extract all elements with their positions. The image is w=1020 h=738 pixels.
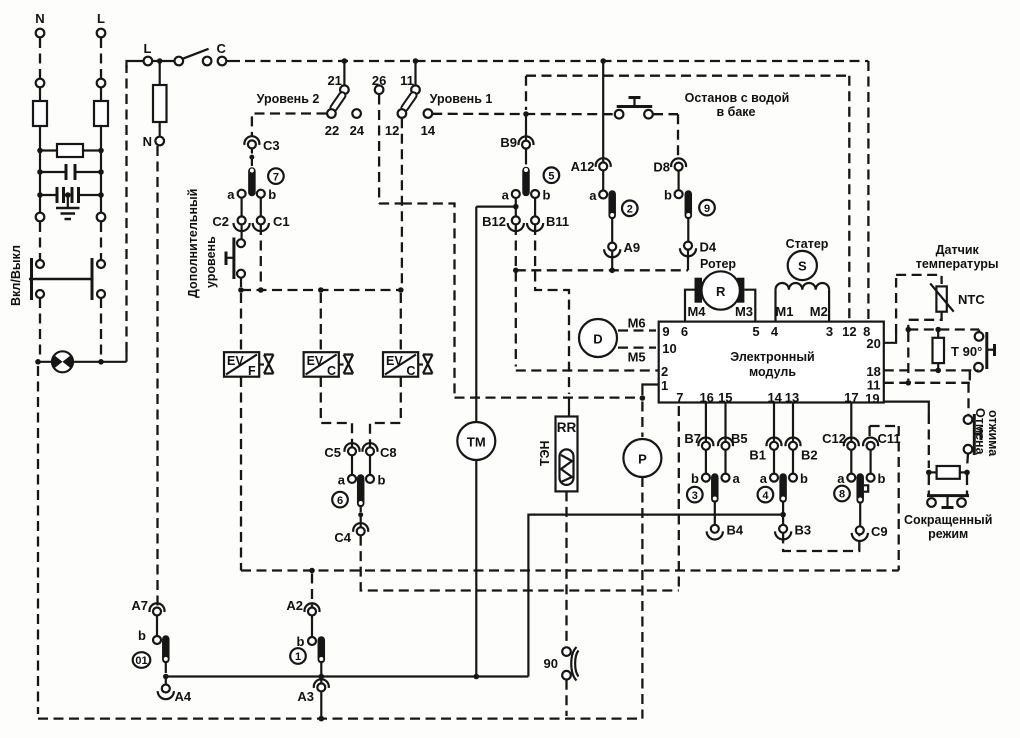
svg-text:4: 4 <box>771 324 779 339</box>
svg-text:D8: D8 <box>653 160 670 175</box>
connector B5 <box>718 431 748 450</box>
svg-text:14: 14 <box>421 123 436 138</box>
wire B11 down to RR line <box>535 225 569 394</box>
svg-text:EV: EV <box>307 354 324 368</box>
svg-text:6: 6 <box>681 324 688 339</box>
wire pin19 to sokr block <box>884 402 929 468</box>
connector C9 <box>852 524 888 541</box>
svg-text:EV: EV <box>227 354 244 368</box>
contact block 8 <box>834 450 885 526</box>
wire pin7 down <box>678 406 680 591</box>
wire TM top rail to block5 a <box>476 204 518 210</box>
svg-text:B3: B3 <box>795 523 812 538</box>
wire C4 to rail y590.5 <box>361 536 679 591</box>
svg-text:9: 9 <box>704 203 710 215</box>
svg-text:D4: D4 <box>700 240 717 255</box>
connector C1 <box>253 214 290 231</box>
svg-text:Статер: Статер <box>786 237 829 251</box>
wire C1 dashed down <box>260 225 262 287</box>
svg-text:Уровень 1: Уровень 1 <box>430 92 493 106</box>
svg-text:a: a <box>760 471 768 486</box>
wire rail y329.5 to 90deg switch <box>908 327 979 333</box>
svg-text:T: T <box>951 344 959 359</box>
node L input terminal <box>97 11 106 87</box>
wire pin13 to B2 <box>792 403 794 446</box>
wire otmena to resistor node <box>967 454 968 469</box>
connector A7 <box>131 598 164 616</box>
svg-text:C9: C9 <box>871 524 888 539</box>
svg-text:1: 1 <box>661 378 668 393</box>
wire pin17 to C12 <box>850 403 852 446</box>
wire C rail corner down to module pin 8 <box>867 61 869 321</box>
wire rail y397.6 to pin1 node <box>455 396 640 398</box>
wire EV/C2 output to C8 <box>370 377 401 447</box>
connector A3 <box>297 679 328 721</box>
wire pin15 to B5 <box>724 403 726 446</box>
node N secondary <box>143 134 164 149</box>
svg-text:4: 4 <box>762 490 769 502</box>
svg-text:A7: A7 <box>131 598 148 613</box>
switch Otmena otzhima <box>964 408 1000 457</box>
ground <box>56 195 80 219</box>
connector C3 <box>244 136 279 153</box>
svg-text:a: a <box>733 471 741 486</box>
svg-text:температуры: температуры <box>916 257 999 271</box>
svg-text:модуль: модуль <box>749 365 796 379</box>
wire EV/C2 input <box>400 293 402 352</box>
wire contact 26 down <box>378 95 380 204</box>
contact block 2 <box>589 170 637 242</box>
svg-text:C1: C1 <box>273 214 290 229</box>
svg-text:B9: B9 <box>500 135 517 150</box>
svg-text:B7: B7 <box>684 431 701 446</box>
svg-text:B1: B1 <box>749 448 766 463</box>
svg-text:B11: B11 <box>546 214 569 229</box>
node N input terminal <box>35 11 44 87</box>
wire pin11 rail <box>884 332 970 386</box>
svg-text:C2: C2 <box>212 214 229 229</box>
connector C4 <box>334 523 368 545</box>
svg-text:ТЭН: ТЭН <box>538 440 552 466</box>
wire N2 dashed down to A7 <box>156 146 158 606</box>
svg-text:R: R <box>716 284 726 299</box>
svg-text:M1: M1 <box>775 304 793 319</box>
switch Vkl/Vykl double pole <box>9 245 105 306</box>
wire rail y570.5 <box>241 568 899 574</box>
wire level2 to C3 <box>252 114 327 138</box>
svg-text:b: b <box>378 473 386 488</box>
contact block 7 <box>227 148 283 216</box>
wire L dashed down to switch <box>100 222 102 259</box>
connector C12 <box>822 431 859 450</box>
module Elektronny modul <box>659 322 884 406</box>
svg-text:A12: A12 <box>571 159 595 174</box>
svg-text:20: 20 <box>866 336 880 351</box>
pushbutton Ostanov s vodoy <box>615 91 790 119</box>
wire rail y204 to corner <box>402 204 455 398</box>
wire pin1 to node <box>640 385 659 401</box>
switch 90deg <box>963 332 995 372</box>
svg-text:a: a <box>338 473 346 488</box>
svg-text:C3: C3 <box>263 138 280 153</box>
connector B1 <box>749 437 781 462</box>
wire N dashed below switch <box>39 298 41 357</box>
svg-text:10: 10 <box>662 341 676 356</box>
wire B3 to C9 dashed link <box>783 533 859 551</box>
svg-text:3: 3 <box>826 324 833 339</box>
svg-text:C: C <box>406 364 415 378</box>
connector A12 <box>571 61 611 174</box>
svg-text:C11: C11 <box>878 431 901 446</box>
resistor on L node <box>153 63 167 137</box>
svg-text:C4: C4 <box>334 530 351 545</box>
connector B4 <box>707 523 744 540</box>
svg-text:P: P <box>638 452 647 467</box>
wire solid bottom rail <box>166 674 529 680</box>
svg-text:b: b <box>800 471 808 486</box>
capacitor X filter <box>37 164 104 180</box>
svg-text:Сокращенный: Сокращенный <box>904 513 992 527</box>
svg-text:b: b <box>543 187 551 202</box>
resistor filter bleeder <box>37 144 104 157</box>
svg-text:2: 2 <box>661 364 668 379</box>
connector D8 <box>653 158 686 174</box>
svg-text:a: a <box>502 187 510 202</box>
motor rotor R <box>685 257 755 322</box>
svg-text:EV: EV <box>386 354 403 368</box>
svg-text:B2: B2 <box>801 448 818 463</box>
connector C11 <box>863 426 901 450</box>
svg-text:уровень: уровень <box>204 236 218 288</box>
motor timer TM <box>457 207 495 677</box>
svg-text:b: b <box>297 634 305 649</box>
svg-text:C: C <box>217 41 227 56</box>
svg-text:C8: C8 <box>380 445 397 460</box>
svg-text:C5: C5 <box>324 445 341 460</box>
svg-text:N: N <box>143 134 152 149</box>
wire lamp corner up to L-switch <box>127 61 144 362</box>
valve EV/F <box>224 352 274 378</box>
contact block 1 <box>290 616 324 684</box>
pressure switch Level 1 <box>372 61 493 138</box>
svg-text:11: 11 <box>400 73 414 88</box>
valve EV/C second <box>383 352 433 378</box>
contact block 01 <box>133 616 169 685</box>
thermostat T <box>933 330 960 374</box>
svg-text:b: b <box>268 187 276 202</box>
wire pin14 to B1 <box>773 403 775 446</box>
wire C11 dashed box <box>870 426 899 570</box>
svg-text:Датчик: Датчик <box>936 243 980 257</box>
svg-text:Останов с водой: Останов с водой <box>685 91 790 105</box>
svg-text:a: a <box>589 188 597 203</box>
svg-text:режим: режим <box>928 527 968 541</box>
svg-text:B12: B12 <box>482 214 506 229</box>
contact block 6 <box>332 455 385 527</box>
wire EV/F input <box>240 293 242 352</box>
svg-text:22: 22 <box>325 123 339 138</box>
switch Dopolnitelny uroven <box>186 189 245 298</box>
capacitor Y pair <box>37 187 104 203</box>
wire rail y290 valves <box>238 287 403 293</box>
wire C rail dashed top <box>245 58 868 64</box>
inductor filter choke N <box>33 87 47 213</box>
svg-text:Дополнительный: Дополнительный <box>186 189 200 298</box>
wire EV/F output down <box>240 377 242 571</box>
valve EV/C first <box>304 352 354 378</box>
svg-text:a: a <box>227 187 235 202</box>
contact block 4 <box>758 450 808 525</box>
connector A2 <box>286 598 319 616</box>
svg-text:7: 7 <box>676 390 683 405</box>
svg-text:19: 19 <box>865 391 879 406</box>
svg-text:b: b <box>691 471 699 486</box>
svg-text:B4: B4 <box>727 523 744 538</box>
svg-text:Уровень 2: Уровень 2 <box>257 92 320 106</box>
svg-text:6: 6 <box>337 495 343 507</box>
svg-text:M3: M3 <box>735 304 753 319</box>
svg-text:D: D <box>593 332 602 347</box>
svg-text:L: L <box>97 11 105 26</box>
svg-text:a: a <box>837 471 845 486</box>
wire EV/C1 output to C5 <box>321 377 352 447</box>
svg-text:L: L <box>144 41 152 56</box>
contact block 9 <box>664 171 715 242</box>
wire level1 rail y114 <box>432 111 614 117</box>
wire second rail to module pin 12 <box>526 76 849 321</box>
svg-text:RR: RR <box>557 420 577 435</box>
connector A4 <box>158 685 192 705</box>
wire contact 12 down <box>401 118 403 287</box>
svg-text:NTC: NTC <box>958 292 985 307</box>
svg-text:A9: A9 <box>624 240 641 255</box>
svg-text:1: 1 <box>295 651 301 663</box>
svg-text:b: b <box>664 188 672 203</box>
contact block 5 <box>502 149 560 217</box>
switch Sokrashchenny rezhim <box>904 475 992 541</box>
wire button to D8 <box>653 114 678 159</box>
motor stator S <box>775 237 829 322</box>
svg-text:24: 24 <box>350 123 365 138</box>
terminal circles below filter <box>36 213 45 222</box>
svg-text:отжима: отжима <box>986 410 1000 457</box>
svg-text:Ротер: Ротер <box>700 257 736 271</box>
switch L to C main <box>144 41 240 65</box>
connector D4 <box>680 240 717 271</box>
connector C2 <box>212 214 249 231</box>
resistor sokr rezhim <box>926 466 970 479</box>
wire 26 corner to 12 line <box>379 202 402 204</box>
lamp indicator <box>35 351 126 372</box>
svg-text:F: F <box>248 364 256 378</box>
svg-text:12: 12 <box>842 324 856 339</box>
svg-text:9: 9 <box>662 324 669 339</box>
svg-text:7: 7 <box>273 171 279 183</box>
svg-text:M6: M6 <box>628 316 646 331</box>
svg-text:90°: 90° <box>963 344 983 359</box>
wire pin16 to B7 <box>705 403 707 446</box>
connector A9 <box>604 240 640 268</box>
wire corner down to pin11 rail <box>969 370 971 382</box>
heater TEN RR <box>538 398 578 492</box>
wire N line dashed to bottom border <box>37 366 39 714</box>
svg-text:M2: M2 <box>810 304 828 319</box>
svg-text:21: 21 <box>327 73 341 88</box>
svg-text:M4: M4 <box>687 304 706 319</box>
svg-text:S: S <box>798 259 807 274</box>
connector B12 <box>482 214 524 231</box>
tacho D <box>579 316 656 365</box>
svg-text:TM: TM <box>467 435 486 450</box>
svg-text:M5: M5 <box>628 350 646 365</box>
connector B7 <box>684 431 713 450</box>
connector B3 <box>775 523 811 540</box>
connector B2 <box>786 437 818 462</box>
pump P <box>623 402 661 719</box>
svg-text:8: 8 <box>839 489 845 501</box>
svg-text:A4: A4 <box>175 689 192 704</box>
svg-text:C12: C12 <box>822 431 846 446</box>
svg-text:5: 5 <box>752 324 759 339</box>
wire EV/C1 input <box>320 293 322 352</box>
thermal cutout 90 <box>544 647 579 681</box>
contact block 3 <box>687 450 741 525</box>
pressure switch Level 2 <box>257 61 365 138</box>
svg-text:A3: A3 <box>297 689 314 704</box>
svg-text:b: b <box>138 628 146 643</box>
svg-text:b: b <box>878 471 886 486</box>
svg-text:Вкл/Выкл: Вкл/Выкл <box>9 245 23 306</box>
wire down to otmena switch <box>967 383 969 416</box>
wire L dashed below switch <box>100 298 102 357</box>
connector C5 <box>324 443 359 460</box>
svg-text:C: C <box>327 364 336 378</box>
inductor filter choke L <box>94 87 108 213</box>
svg-text:90: 90 <box>544 656 558 671</box>
wire A2 drop from rail <box>311 574 313 608</box>
wire solid rail B4 B3 <box>528 515 783 677</box>
wire B12 down to pin2 rail <box>513 225 659 371</box>
wire RR down to thermal 90 <box>565 491 567 647</box>
wire bottom dashed border <box>38 717 642 719</box>
connector C8 <box>363 443 397 460</box>
svg-text:5: 5 <box>548 170 554 182</box>
svg-text:2: 2 <box>627 204 633 216</box>
svg-text:Электронный: Электронный <box>730 350 814 364</box>
svg-text:12: 12 <box>385 123 399 138</box>
wire N dashed down to switch <box>39 222 41 259</box>
svg-text:в баке: в баке <box>716 105 755 119</box>
svg-text:01: 01 <box>135 655 147 667</box>
svg-text:3: 3 <box>692 490 698 502</box>
sensor temperatury NTC <box>884 243 999 343</box>
connector B11 <box>527 214 569 231</box>
svg-text:B5: B5 <box>731 431 748 446</box>
connector B9 <box>500 116 533 150</box>
svg-text:N: N <box>35 11 44 26</box>
wire pin18 rail <box>884 369 979 371</box>
svg-text:A2: A2 <box>286 598 303 613</box>
wire rail y270 A9 D4 <box>516 268 688 274</box>
wire thermal 90 down to border <box>565 680 567 716</box>
